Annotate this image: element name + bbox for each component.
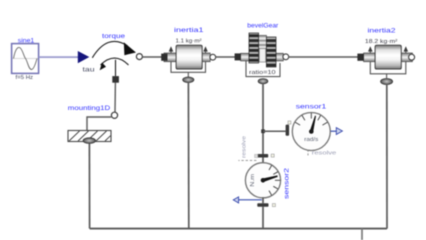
svg-text:N.m: N.m <box>250 174 256 187</box>
sensor1 output connector <box>336 128 342 135</box>
wire bevelGear frame down to sensor2 <box>262 84 264 155</box>
svg-text:18.2 kg·m²: 18.2 kg·m² <box>365 39 398 45</box>
inertia2 flange_a square <box>357 54 363 61</box>
torque flange_b circle <box>136 54 142 60</box>
svg-text:ratio=10: ratio=10 <box>249 70 276 76</box>
sine source sine1 <box>12 44 39 74</box>
sensor2 frame tag a <box>271 154 274 157</box>
bevelGear <box>241 33 284 77</box>
sensor1 frame tag <box>288 121 291 124</box>
svg-text:inertia1: inertia1 <box>174 27 204 34</box>
mounting1D frame ellipse <box>83 138 95 144</box>
wire inertia1 frame to housing line <box>187 82 189 228</box>
sensor2 gauge (cut torque, rotated) <box>245 163 280 198</box>
housing bottom wire <box>90 228 387 230</box>
wire junction to sensor1.frame_a <box>263 130 286 132</box>
svg-text:tau: tau <box>83 67 95 73</box>
mounting1D flange circle <box>111 112 117 118</box>
bevelGear flange_a square <box>235 53 241 60</box>
svg-text:bevelGear: bevelGear <box>247 23 279 30</box>
sensor1 frame_a bar <box>286 125 290 136</box>
svg-text:f=5 Hz: f=5 Hz <box>16 75 34 81</box>
wire inertia2 frame to housing line <box>386 84 388 229</box>
sensor2 frame_resolve square <box>255 154 258 157</box>
wire gauge bottom to frame_b <box>262 197 264 203</box>
wire mounting1D flange elbow <box>87 117 111 130</box>
sensor1 output signal w <box>331 130 337 132</box>
inertia1 flange_b circle <box>210 54 216 60</box>
sensor2 frame_b bar <box>257 203 268 207</box>
wire sensor2.frame_a bar to gauge <box>262 157 264 163</box>
sensor1 frame_resolve dashed <box>307 150 309 157</box>
sensor2 frame_a bar <box>257 154 268 158</box>
svg-text:torque: torque <box>102 33 125 40</box>
bevelGear flange_b circle <box>283 54 289 60</box>
svg-text:1.1 kg·m²: 1.1 kg·m² <box>176 39 202 45</box>
wire torque.support to mounting1D.flange_b <box>114 83 116 113</box>
torque support square <box>112 76 119 83</box>
sensor2 frame_resolve dashed wire <box>238 159 256 161</box>
wire sine1.y to torque.tau (signal) <box>39 56 79 58</box>
sensor2 frame tag b <box>272 204 275 207</box>
wire mounting1D frame down to housing line <box>88 144 90 229</box>
inertia2 frame ellipse <box>381 79 393 85</box>
bevelGear frame ellipse <box>258 79 268 84</box>
svg-text:mounting1D: mounting1D <box>68 105 111 112</box>
sensor1 gauge (angular velocity) <box>292 113 330 151</box>
input connector tau (RealInput arrow) <box>78 51 90 63</box>
svg-text:sensor1: sensor1 <box>296 103 327 110</box>
svg-text:rad/s: rad/s <box>304 137 319 143</box>
wire bevelGear.flange_b to inertia2.flange_a <box>289 56 358 58</box>
junction node at sensor1 branch <box>261 129 265 133</box>
rotor inertia1 <box>164 45 210 77</box>
svg-text:resolve: resolve <box>241 136 247 158</box>
wire sensor2.frame_b to housing line <box>262 207 264 229</box>
wire stub to world (cut off) <box>361 229 363 240</box>
inertia1 flange_a square <box>161 54 167 61</box>
sensor2 output connector <box>233 197 238 203</box>
inertia2 flange_b circle <box>409 54 415 60</box>
mounting1D hatched housing <box>68 131 111 142</box>
torque arc with arrowhead <box>92 41 136 76</box>
wire inertia1.flange_b to bevelGear.flange_a <box>216 56 236 58</box>
svg-text:inertia2: inertia2 <box>368 27 396 34</box>
svg-text:sensor2: sensor2 <box>284 168 291 199</box>
sensor2 output signal wire <box>238 199 262 201</box>
svg-text:resolve: resolve <box>312 151 337 157</box>
rotor inertia2 <box>364 45 413 78</box>
inertia1 frame ellipse <box>183 77 194 83</box>
wire torque.flange to inertia1.flange_a <box>142 56 161 58</box>
